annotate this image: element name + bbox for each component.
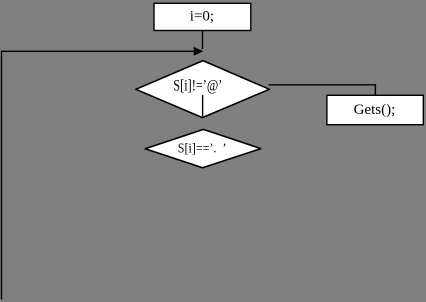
svg-text:Gets();: Gets();: [354, 102, 396, 118]
svg-text:S[i]!=’@’: S[i]!=’@’: [173, 77, 222, 95]
svg-text:S[i]==’. ’: S[i]==’. ’: [178, 139, 227, 155]
svg-text:i=0;: i=0;: [190, 9, 214, 25]
